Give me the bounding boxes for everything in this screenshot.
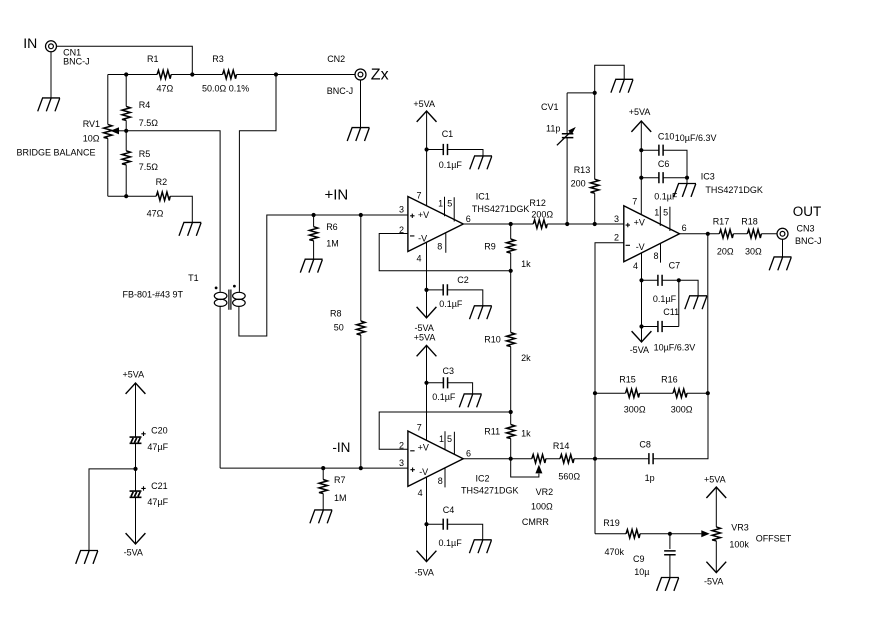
- svg-text:C6: C6: [658, 159, 670, 169]
- capacitor C7: [642, 260, 699, 304]
- svg-text:R9: R9: [484, 241, 496, 251]
- wire IC2 output row: [463, 458, 595, 460]
- svg-text:R11: R11: [484, 426, 500, 436]
- svg-text:+5VA: +5VA: [123, 370, 145, 380]
- op-amp IC2: [399, 423, 519, 498]
- svg-text:1: 1: [438, 199, 443, 209]
- svg-text:R16: R16: [661, 375, 678, 385]
- svg-text:47µF: 47µF: [147, 442, 168, 452]
- junction dot R8 top: [359, 213, 363, 217]
- transformer T1: [123, 273, 246, 310]
- wire IC3 pin4 rail: [641, 253, 643, 342]
- wire C20 to C21: [135, 443, 137, 491]
- junction dot IC2 out: [509, 457, 513, 461]
- power -5VA below IC1: [415, 307, 437, 333]
- svg-text:+V: +V: [418, 210, 429, 220]
- svg-text:10Ω: 10Ω: [83, 134, 100, 144]
- junction dot C20/C21: [133, 467, 137, 471]
- potentiometer VR3: [701, 523, 749, 550]
- capacitor C11: [642, 307, 696, 352]
- junction dot R3/CN2: [274, 72, 278, 76]
- junction dot C1: [425, 147, 429, 151]
- wire CN1 stem: [50, 52, 52, 98]
- wire IC3 out down to R15/R16 row: [707, 234, 709, 393]
- wire IC3 pin7 rail: [640, 121, 642, 215]
- svg-text:1: 1: [439, 434, 444, 444]
- svg-text:1M: 1M: [334, 493, 347, 503]
- svg-text:IC2: IC2: [476, 474, 490, 484]
- power +5VA above IC2: [414, 332, 437, 356]
- svg-text:-5VA: -5VA: [415, 568, 434, 578]
- svg-text:BRIDGE BALANCE: BRIDGE BALANCE: [17, 148, 96, 158]
- svg-text:7.5Ω: 7.5Ω: [139, 118, 159, 128]
- power +5VA above IC3: [629, 107, 651, 132]
- wire C7 to C11 right link: [678, 280, 680, 326]
- svg-text:1M: 1M: [326, 239, 339, 249]
- wire R19 row: [595, 533, 701, 535]
- svg-text:C3: C3: [443, 366, 455, 376]
- svg-text:R14: R14: [553, 441, 570, 451]
- capacitor C10: [641, 132, 716, 178]
- svg-text:+V: +V: [634, 218, 645, 228]
- resistor R5: [122, 149, 158, 172]
- ground under CN2: [347, 128, 369, 141]
- svg-text:1p: 1p: [645, 473, 655, 483]
- svg-text:0.1µF: 0.1µF: [439, 299, 463, 309]
- ground under CN3: [769, 257, 791, 270]
- resistor R10: [484, 333, 531, 364]
- wire CN1 to R1/R3 junction: [57, 46, 193, 74]
- svg-text:R19: R19: [603, 518, 620, 528]
- svg-text:VR2: VR2: [536, 487, 554, 497]
- svg-text:Zx: Zx: [371, 67, 389, 84]
- svg-text:RV1: RV1: [83, 119, 100, 129]
- wire R15/R16 row: [595, 392, 708, 394]
- op-amp IC1: [399, 191, 529, 264]
- svg-text:6: 6: [682, 223, 687, 233]
- ground under C4: [469, 540, 491, 553]
- svg-text:C8: C8: [639, 439, 651, 449]
- wire R2 row: [126, 196, 192, 222]
- svg-text:THS4271DGK: THS4271DGK: [705, 185, 763, 195]
- wire T1 right bottom to +IN row: [239, 215, 408, 336]
- wire RV1 wiper to T1: [126, 131, 220, 292]
- junction dot C10: [639, 148, 643, 152]
- wire IC1 output row: [463, 223, 624, 225]
- svg-text:0.1µF: 0.1µF: [653, 294, 677, 304]
- svg-text:10µF/6.3V: 10µF/6.3V: [654, 342, 696, 352]
- wire R9/R10/R11 ladder: [510, 224, 512, 459]
- capacitor C20: [130, 425, 169, 452]
- potentiometer VR2: [511, 455, 553, 527]
- junction dot R1/R4: [124, 72, 128, 76]
- svg-text:R12: R12: [529, 198, 546, 208]
- junction dot C7 right: [677, 278, 681, 282]
- resistor R8: [330, 215, 365, 468]
- svg-text:0.1µF: 0.1µF: [439, 538, 463, 548]
- power -5VA below IC3: [630, 331, 652, 355]
- resistor R7: [319, 468, 347, 510]
- svg-text:+5VA: +5VA: [413, 99, 435, 109]
- svg-text:200: 200: [571, 179, 586, 189]
- wire -IN row: [220, 467, 408, 469]
- wire CN2 stem: [360, 80, 362, 128]
- wire T1 left bottom to -IN row: [219, 306, 221, 468]
- svg-text:IC3: IC3: [701, 172, 715, 182]
- svg-text:FB-801-#43 9T: FB-801-#43 9T: [123, 290, 184, 300]
- op-amp IC3: [614, 172, 763, 272]
- junction dot C11: [639, 324, 643, 328]
- svg-text:R13: R13: [574, 165, 591, 175]
- capacitor C8: [595, 393, 708, 483]
- svg-text:R3: R3: [212, 54, 224, 64]
- svg-text:30Ω: 30Ω: [745, 247, 762, 257]
- junction dot R13 row: [593, 222, 597, 226]
- svg-text:R6: R6: [326, 222, 338, 232]
- svg-text:R5: R5: [139, 149, 151, 159]
- svg-text:THS4271DGK: THS4271DGK: [472, 204, 530, 214]
- svg-text:IN: IN: [23, 35, 37, 51]
- capacitor C9: [633, 534, 676, 578]
- svg-text:+5VA: +5VA: [629, 107, 651, 117]
- junction dot C9: [668, 532, 672, 536]
- svg-text:C11: C11: [663, 307, 679, 317]
- junction dot IC1 out: [509, 222, 513, 226]
- svg-text:100k: 100k: [729, 539, 749, 549]
- svg-text:OUT: OUT: [793, 204, 822, 219]
- ground under R2: [179, 222, 201, 235]
- wire IC2 pin7 rail: [426, 345, 428, 440]
- svg-text:470k: 470k: [605, 547, 625, 557]
- svg-text:4: 4: [633, 261, 638, 271]
- capacitor C3: [427, 366, 473, 402]
- wire IC2 pin4 rail: [426, 477, 428, 561]
- svg-text:3: 3: [614, 214, 619, 224]
- svg-text:R4: R4: [139, 100, 151, 110]
- svg-text:-V: -V: [636, 242, 645, 252]
- ground under R7: [310, 510, 332, 523]
- junction dot R13 top: [593, 91, 597, 95]
- resistor R3: [202, 54, 249, 93]
- svg-text:+5VA: +5VA: [414, 332, 436, 342]
- svg-text:-5VA: -5VA: [630, 345, 649, 355]
- svg-text:11p: 11p: [546, 124, 560, 134]
- wire CN2 node down to T1: [239, 75, 276, 292]
- resistor R16: [661, 375, 693, 415]
- svg-text:7.5Ω: 7.5Ω: [139, 162, 159, 172]
- resistor R15: [619, 375, 646, 415]
- wire IC3 pin2 feedback: [595, 243, 624, 393]
- svg-text:+5VA: +5VA: [704, 475, 726, 485]
- svg-text:R15: R15: [619, 375, 636, 385]
- svg-text:5: 5: [447, 434, 452, 444]
- svg-text:-V: -V: [418, 233, 427, 243]
- wire IC1 pin7 rail: [426, 111, 428, 206]
- capacitor C1: [427, 129, 483, 170]
- wire R4 column: [125, 75, 127, 197]
- junction dot IC2 feedback: [509, 410, 513, 414]
- svg-text:1k: 1k: [521, 259, 531, 269]
- svg-text:BNC-J: BNC-J: [63, 57, 90, 67]
- wire C20 column top: [135, 383, 137, 437]
- svg-text:200Ω: 200Ω: [531, 209, 553, 219]
- resistor R19: [603, 518, 640, 557]
- potentiometer RV1: [83, 119, 127, 144]
- svg-text:3: 3: [399, 204, 404, 214]
- svg-text:+IN: +IN: [325, 187, 349, 204]
- svg-text:100Ω: 100Ω: [531, 501, 553, 511]
- resistor R12: [529, 198, 553, 228]
- svg-text:5: 5: [447, 199, 452, 209]
- svg-text:-5VA: -5VA: [124, 547, 143, 557]
- svg-text:C4: C4: [443, 505, 455, 515]
- power +5VA above C20: [123, 370, 146, 394]
- svg-text:BNC-J: BNC-J: [327, 86, 354, 96]
- svg-text:1k: 1k: [521, 428, 531, 438]
- svg-text:C21: C21: [151, 481, 168, 491]
- ground under R6: [300, 259, 322, 272]
- wire IC2 pin2 feedback loop: [379, 412, 511, 449]
- capacitor C6: [641, 159, 687, 201]
- capacitor C2: [427, 275, 483, 309]
- resistor R9: [484, 239, 531, 269]
- svg-text:4: 4: [417, 253, 422, 263]
- junction dot R1/R3: [190, 72, 194, 76]
- ground left column: [76, 551, 98, 564]
- resistor R4: [122, 100, 158, 128]
- resistor R17: [713, 216, 734, 256]
- svg-text:0.1µF: 0.1µF: [439, 160, 463, 170]
- junction dot RV1 wiper: [124, 129, 128, 133]
- power -5VA below C21: [124, 533, 146, 557]
- ground right of C7: [685, 296, 707, 309]
- junction dot C3: [424, 381, 428, 385]
- svg-text:8: 8: [437, 242, 442, 252]
- svg-text:-5VA: -5VA: [704, 577, 723, 587]
- svg-text:R1: R1: [147, 54, 159, 64]
- svg-text:7: 7: [417, 191, 422, 201]
- svg-text:47Ω: 47Ω: [157, 84, 174, 94]
- junction dot R16 right: [706, 391, 710, 395]
- svg-text:4: 4: [418, 488, 423, 498]
- svg-text:C10: C10: [658, 132, 675, 142]
- svg-text:3: 3: [399, 458, 404, 468]
- junction dot R15 left: [593, 391, 597, 395]
- svg-text:T1: T1: [188, 273, 199, 283]
- junction dot C6 right: [685, 176, 689, 180]
- wire IC1 pin4 rail: [426, 243, 428, 318]
- svg-text:C20: C20: [151, 425, 168, 435]
- svg-text:300Ω: 300Ω: [624, 405, 646, 415]
- ground under C3: [459, 394, 481, 407]
- svg-text:8: 8: [654, 251, 659, 261]
- svg-text:BNC-J: BNC-J: [795, 236, 822, 246]
- svg-text:300Ω: 300Ω: [671, 405, 693, 415]
- ground under CN1: [38, 98, 60, 111]
- resistor R6: [309, 215, 338, 259]
- svg-text:10µ: 10µ: [634, 567, 649, 577]
- wire C6 ground stub: [686, 178, 688, 184]
- svg-text:THS4271DGK: THS4271DGK: [461, 486, 519, 496]
- wire IC1 pin2 feedback loop: [379, 234, 511, 271]
- connector CN1: [46, 41, 90, 67]
- svg-text:CN3: CN3: [797, 224, 815, 234]
- wire CV1 top to ground stub: [567, 65, 624, 93]
- junction dot R8 bottom: [359, 466, 363, 470]
- svg-text:0.1µF: 0.1µF: [432, 392, 456, 402]
- wire VR3 column: [715, 487, 717, 572]
- junction dot CV1 row: [565, 222, 569, 226]
- svg-text:VR3: VR3: [731, 523, 749, 533]
- resistor R2: [147, 177, 171, 218]
- svg-text:-IN: -IN: [332, 440, 350, 455]
- svg-text:+V: +V: [418, 442, 429, 452]
- wire R14 node vertical: [594, 393, 596, 534]
- capacitor C21: [130, 481, 169, 507]
- svg-text:C9: C9: [633, 554, 645, 564]
- svg-text:CV1: CV1: [541, 102, 559, 112]
- wire CN3 stem: [782, 239, 784, 257]
- svg-text:20Ω: 20Ω: [717, 247, 734, 257]
- svg-text:R10: R10: [484, 335, 501, 345]
- svg-text:47µF: 47µF: [147, 497, 168, 507]
- junction dot R14/C8: [593, 457, 597, 461]
- svg-text:7: 7: [632, 197, 637, 207]
- junction dot C6: [639, 176, 643, 180]
- ground under C9: [657, 578, 679, 591]
- power +5VA above VR3: [704, 475, 726, 498]
- svg-text:R2: R2: [156, 177, 168, 187]
- ground under C2: [470, 306, 492, 319]
- ground right of C6: [674, 184, 696, 197]
- ground under C1: [470, 156, 492, 169]
- svg-text:560Ω: 560Ω: [558, 471, 580, 481]
- resistor R18: [741, 216, 762, 256]
- svg-text:-V: -V: [419, 467, 428, 477]
- svg-text:10µF/6.3V: 10µF/6.3V: [675, 133, 717, 143]
- svg-text:5: 5: [663, 208, 668, 218]
- svg-text:50.0Ω 0.1%: 50.0Ω 0.1%: [202, 84, 249, 94]
- wire C21 to -5VA: [135, 497, 137, 544]
- wire node A row y74.5: [108, 74, 355, 76]
- svg-text:2k: 2k: [521, 353, 531, 363]
- capacitor CV1: [541, 93, 576, 224]
- svg-text:1: 1: [654, 208, 659, 218]
- capacitor C4: [427, 505, 483, 548]
- wire RV1 branch: [108, 75, 126, 197]
- junction dot C2: [424, 288, 428, 292]
- wire C20 node to ground: [89, 469, 136, 551]
- svg-text:C2: C2: [457, 275, 469, 285]
- svg-text:6: 6: [466, 449, 471, 459]
- resistor R13: [571, 93, 599, 224]
- power +5VA above IC1: [413, 99, 436, 122]
- junction dot R7: [321, 466, 325, 470]
- svg-text:CN2: CN2: [327, 54, 345, 64]
- svg-text:C7: C7: [669, 260, 681, 270]
- svg-text:8: 8: [438, 476, 443, 486]
- junction dot C4: [424, 522, 428, 526]
- wire IC3 output row: [680, 233, 778, 235]
- svg-text:R17: R17: [713, 216, 730, 226]
- svg-text:7: 7: [417, 423, 422, 433]
- svg-text:C1: C1: [442, 129, 454, 139]
- resistor R11: [484, 425, 531, 439]
- svg-text:50: 50: [334, 323, 344, 333]
- svg-text:R7: R7: [334, 475, 346, 485]
- svg-text:R8: R8: [330, 309, 342, 319]
- junction dot C7: [639, 278, 643, 282]
- junction dot IC1 feedback: [509, 269, 513, 273]
- svg-text:IC1: IC1: [476, 192, 490, 202]
- svg-text:47Ω: 47Ω: [147, 208, 164, 218]
- connector CN2: [327, 54, 366, 96]
- resistor R1: [147, 54, 174, 93]
- svg-text:2: 2: [614, 233, 619, 243]
- power -5VA below IC2: [415, 551, 437, 578]
- power -5VA below VR3: [704, 562, 726, 587]
- svg-text:6: 6: [466, 214, 471, 224]
- svg-text:R18: R18: [741, 216, 758, 226]
- ground top middle: [611, 79, 633, 92]
- svg-text:CMRR: CMRR: [522, 517, 549, 527]
- resistor R14: [553, 441, 581, 481]
- junction dot IC3 out: [706, 232, 710, 236]
- connector CN3: [777, 224, 822, 247]
- junction dot R5/R2: [124, 194, 128, 198]
- svg-text:OFFSET: OFFSET: [756, 534, 792, 544]
- junction dot R6: [312, 213, 316, 217]
